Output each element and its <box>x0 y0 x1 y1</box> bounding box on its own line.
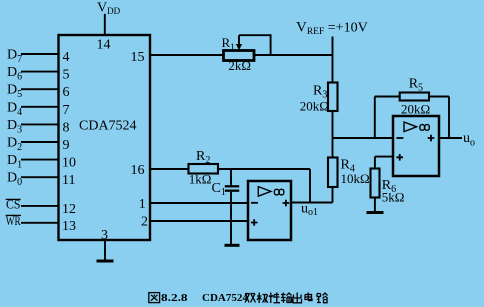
svg-text:16: 16 <box>131 163 145 178</box>
svg-text:C1: C1 <box>212 181 226 198</box>
svg-text:uo1: uo1 <box>301 202 318 219</box>
svg-text:R2: R2 <box>196 149 210 166</box>
svg-text:20kΩ: 20kΩ <box>401 102 430 117</box>
svg-text:D0: D0 <box>7 171 22 189</box>
svg-text:D6: D6 <box>7 65 22 83</box>
svg-text:4: 4 <box>63 50 70 65</box>
svg-text:12: 12 <box>62 202 76 217</box>
svg-text:5kΩ: 5kΩ <box>382 190 405 205</box>
svg-text:D2: D2 <box>7 136 22 154</box>
svg-text:14: 14 <box>97 38 111 53</box>
svg-text:11: 11 <box>62 173 75 188</box>
svg-text:CDA7524: CDA7524 <box>79 119 137 134</box>
svg-text:3: 3 <box>101 228 108 243</box>
svg-text:10: 10 <box>62 156 76 171</box>
svg-text:2kΩ: 2kΩ <box>228 58 251 73</box>
svg-text:D7: D7 <box>7 48 22 66</box>
svg-text:VDD: VDD <box>97 0 121 16</box>
svg-text:2: 2 <box>141 215 148 230</box>
svg-text:D4: D4 <box>7 100 22 118</box>
svg-text:9: 9 <box>63 138 70 153</box>
svg-text:8.2.8: 8.2.8 <box>161 292 188 304</box>
svg-text:D1: D1 <box>7 153 22 171</box>
svg-text:D5: D5 <box>7 83 22 101</box>
svg-text:1kΩ: 1kΩ <box>189 172 212 187</box>
svg-text:20kΩ: 20kΩ <box>300 99 329 114</box>
svg-text:1: 1 <box>139 197 146 212</box>
svg-text:10kΩ: 10kΩ <box>341 171 370 186</box>
svg-text:15: 15 <box>131 50 145 65</box>
svg-text:13: 13 <box>62 219 76 234</box>
svg-text:R5: R5 <box>409 77 423 94</box>
svg-text:VREF =+10V: VREF =+10V <box>296 20 368 38</box>
svg-text:8: 8 <box>63 120 70 135</box>
svg-text:7: 7 <box>63 103 70 118</box>
svg-text:CDA7524: CDA7524 <box>202 292 248 304</box>
svg-text:5: 5 <box>63 68 70 83</box>
svg-text:D3: D3 <box>7 118 22 136</box>
svg-text:6: 6 <box>63 85 70 100</box>
svg-text:uo: uo <box>463 131 475 149</box>
